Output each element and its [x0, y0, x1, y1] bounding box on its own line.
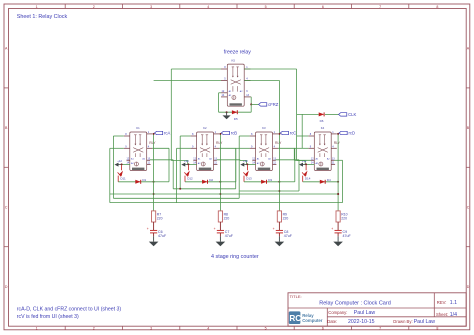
- svg-text:RLY: RLY: [275, 141, 282, 145]
- resistor R10: [336, 211, 348, 222]
- svg-text:47uF: 47uF: [343, 234, 352, 238]
- svg-text:6: 6: [322, 5, 324, 9]
- svg-text:Computer: Computer: [302, 318, 323, 323]
- relay K4: [308, 126, 337, 171]
- svg-text:1.1: 1.1: [450, 300, 457, 306]
- svg-text:D14: D14: [305, 176, 311, 180]
- flyback diode D14: [302, 165, 311, 182]
- svg-text:+12: +12: [184, 159, 189, 163]
- svg-text:5: 5: [265, 5, 267, 9]
- hierarchical label CLK: [339, 112, 357, 117]
- diode D4: [320, 178, 331, 184]
- capacitor C6: [147, 227, 167, 238]
- wire coil feed K2: [188, 163, 197, 165]
- hierarchical label rcA: [155, 131, 171, 136]
- wire K3 pin9 vertical: [236, 148, 250, 189]
- svg-text:D5: D5: [234, 117, 238, 121]
- relay K1: [124, 126, 153, 171]
- svg-text:rcA: rcA: [164, 131, 170, 136]
- svg-text:freeze relay: freeze relay: [224, 50, 252, 56]
- svg-text:220: 220: [224, 217, 230, 221]
- svg-text:K2: K2: [203, 126, 207, 130]
- wire diode row K3: [244, 181, 279, 183]
- svg-text:D4: D4: [327, 178, 331, 182]
- wire coil feed K1: [121, 163, 130, 165]
- junction column feed K1: [153, 193, 155, 195]
- svg-text:rcD: rcD: [349, 131, 356, 136]
- svg-text:TITLE:: TITLE:: [290, 294, 302, 299]
- svg-text:1/4: 1/4: [450, 312, 457, 318]
- svg-text:CLK: CLK: [348, 112, 356, 117]
- wire K3 pin13 down to K4 coil: [276, 160, 306, 191]
- svg-text:Drawn By:: Drawn By:: [393, 319, 412, 324]
- svg-text:+12: +12: [302, 159, 307, 163]
- wire stage column K1: [153, 134, 155, 211]
- diode D2: [202, 178, 213, 184]
- power +12V arrow K3: [240, 159, 248, 167]
- junction column top K3: [278, 133, 280, 135]
- wire coil feed K3: [247, 163, 256, 165]
- hierarchical label rcD: [339, 131, 355, 136]
- svg-text:RLY: RLY: [149, 141, 156, 145]
- svg-text:1: 1: [36, 5, 38, 9]
- svg-text:rcC: rcC: [290, 131, 297, 136]
- wire K5 pin5 left: [154, 80, 221, 82]
- wire bus b3: [113, 197, 239, 199]
- title block dividers: [288, 293, 466, 326]
- svg-text:2022-10-15: 2022-10-15: [348, 319, 375, 325]
- svg-text:rcV is fed from UI (sheet 3): rcV is fed from UI (sheet 3): [17, 314, 79, 320]
- junction column top K2: [219, 133, 221, 135]
- svg-text:8: 8: [436, 5, 438, 9]
- wire coil feed K4: [305, 163, 314, 165]
- svg-text:47uF: 47uF: [284, 234, 293, 238]
- svg-text:K5: K5: [232, 59, 236, 63]
- wire stage column K2: [219, 134, 221, 211]
- wire pin4 to diode row K2: [219, 148, 236, 182]
- svg-text:RLY: RLY: [216, 141, 223, 145]
- diode D6: [319, 112, 324, 122]
- junction column feed K2: [219, 193, 221, 195]
- flyback diode D13: [243, 165, 252, 182]
- junction b1 K2 pin8: [179, 188, 181, 190]
- ground below C7: [216, 236, 226, 246]
- ground below C9: [333, 236, 343, 246]
- svg-text:D12: D12: [187, 176, 193, 180]
- junction diode row K3: [278, 181, 280, 183]
- svg-text:Sheet:: Sheet:: [436, 312, 448, 317]
- svg-text:D11: D11: [120, 176, 126, 180]
- svg-text:47uF: 47uF: [225, 234, 234, 238]
- svg-text:Relay Computer : Clock Card: Relay Computer : Clock Card: [319, 301, 391, 307]
- wire bus b1: [173, 188, 236, 190]
- junction column top K1: [153, 133, 155, 135]
- junction diode row K4: [337, 181, 339, 183]
- svg-text:D1: D1: [142, 178, 146, 182]
- wire resistor to cap R7: [153, 222, 155, 230]
- wire bus b4: [110, 202, 343, 204]
- wire D6 to CLK label: [325, 113, 339, 115]
- svg-text:rcA-D, CLK and cFRZ connect to: rcA-D, CLK and cFRZ connect to UI (sheet…: [17, 306, 122, 312]
- wire diode row K4: [303, 181, 338, 183]
- wire K3 pin8 vertical: [239, 136, 249, 198]
- wire K1 pin8 vertical: [113, 136, 123, 198]
- wire stage column K3: [278, 134, 280, 211]
- wire K5 coil loop: [219, 93, 252, 112]
- junction coil node K2: [187, 163, 189, 165]
- wire diode row K2: [185, 181, 220, 183]
- flyback diode D12: [184, 165, 193, 182]
- wire K5 pin4 right: [244, 80, 279, 82]
- wire stage column K4: [337, 134, 339, 211]
- svg-text:4: 4: [207, 327, 209, 331]
- svg-text:+: +: [273, 227, 275, 231]
- power +12V arrow K4: [299, 159, 307, 167]
- svg-text:Paul Law: Paul Law: [414, 319, 436, 325]
- wire D6 branch to K4 pin9: [301, 114, 303, 148]
- svg-text:1: 1: [36, 327, 38, 331]
- wire resistor to cap R9: [278, 222, 280, 230]
- logo RC Relay Computer: [289, 311, 323, 324]
- junction cFRZ node: [250, 103, 252, 105]
- svg-text:Company:: Company:: [328, 310, 347, 315]
- diode D5: [232, 110, 238, 121]
- resistor R7: [152, 211, 163, 222]
- svg-text:D: D: [5, 285, 8, 289]
- svg-text:+: +: [331, 227, 333, 231]
- svg-text:C: C: [5, 205, 8, 209]
- hierarchical label cFRZ: [259, 102, 279, 107]
- diode D3: [261, 178, 272, 184]
- power +12V arrow K2: [181, 159, 189, 167]
- svg-text:+: +: [147, 227, 149, 231]
- svg-text:D6: D6: [320, 119, 324, 123]
- resistor R8: [218, 211, 229, 222]
- svg-text:6: 6: [322, 327, 324, 331]
- svg-text:D13: D13: [246, 176, 252, 180]
- junction coil node K3: [246, 163, 248, 165]
- svg-text:7: 7: [379, 327, 381, 331]
- junction coil node K1: [121, 163, 123, 165]
- svg-text:220: 220: [341, 217, 347, 221]
- wire resistor to cap R10: [337, 222, 339, 230]
- svg-text:+12: +12: [243, 159, 248, 163]
- svg-text:RLY: RLY: [334, 141, 341, 145]
- svg-text:rcB: rcB: [231, 131, 237, 136]
- wire K4 pin13 loop right: [335, 160, 343, 202]
- svg-text:5: 5: [265, 327, 267, 331]
- svg-text:D2: D2: [209, 178, 213, 182]
- junction column top K4: [337, 133, 339, 135]
- svg-text:cFRZ: cFRZ: [268, 102, 279, 107]
- wire K5 pin1 right: [244, 68, 296, 70]
- svg-text:7: 7: [379, 5, 381, 9]
- wire bus b2: [110, 193, 338, 195]
- diode D1: [135, 178, 146, 184]
- hierarchical label rcB: [221, 131, 237, 136]
- wire K5 pin8 left: [171, 68, 221, 70]
- resistor R9: [277, 211, 288, 222]
- wire K1 pin13 down: [150, 160, 173, 189]
- svg-text:3: 3: [150, 5, 152, 9]
- wire pin4 to diode row K1: [152, 148, 169, 182]
- capacitor C7: [214, 227, 234, 238]
- wire K5 left vertical to K2 coil: [171, 69, 187, 164]
- hierarchical label rcC: [280, 131, 296, 136]
- junction b2 col4 end: [337, 193, 339, 195]
- ground below C8: [275, 236, 285, 246]
- svg-text:+12: +12: [117, 159, 122, 163]
- wire K4 pin8 vertical: [297, 135, 309, 137]
- svg-text:C: C: [467, 205, 470, 209]
- title block texts: [290, 294, 458, 325]
- wire right vertical to D6: [297, 69, 319, 161]
- svg-text:47uF: 47uF: [158, 234, 167, 238]
- svg-text:2: 2: [93, 5, 95, 9]
- relay K5: [221, 59, 251, 107]
- wire to cFRZ label: [251, 103, 258, 105]
- junction coil node K4: [305, 163, 307, 165]
- wire bus b5: [240, 190, 299, 192]
- svg-text:+: +: [214, 227, 216, 231]
- junction diode row K1: [153, 181, 155, 183]
- svg-text:REV:: REV:: [437, 300, 447, 305]
- relay K2: [191, 126, 220, 171]
- wire resistor to cap R8: [219, 222, 221, 230]
- junction column feed K4: [337, 193, 339, 195]
- svg-text:8: 8: [436, 327, 438, 331]
- svg-text:K4: K4: [321, 126, 325, 130]
- junction column feed K3: [278, 190, 280, 192]
- power +12V arrow K1: [115, 159, 123, 167]
- capacitor C8: [273, 227, 293, 238]
- svg-text:220: 220: [283, 217, 289, 221]
- svg-text:3: 3: [150, 327, 152, 331]
- wire vertical to rcC node: [279, 81, 281, 134]
- junction diode row K2: [219, 181, 221, 183]
- svg-text:Sheet 1: Relay Clock: Sheet 1: Relay Clock: [17, 14, 68, 20]
- ground below C6: [149, 236, 159, 246]
- junction K5 ground node: [226, 111, 228, 113]
- svg-text:D: D: [467, 285, 470, 289]
- wire pin4 to diode row K3: [278, 148, 295, 182]
- wire K2 pin13 down to K3 coil: [217, 160, 247, 165]
- svg-text:4 stage ring counter: 4 stage ring counter: [211, 254, 259, 260]
- svg-text:Relay: Relay: [302, 313, 314, 318]
- svg-text:220: 220: [157, 217, 163, 221]
- relay K3: [250, 126, 279, 171]
- wire K4 pin9 vertical: [294, 148, 311, 160]
- svg-text:Paul Law: Paul Law: [354, 310, 376, 316]
- flyback diode D11: [118, 165, 126, 182]
- wire K1 pin9 vertical: [110, 148, 124, 202]
- svg-text:RC: RC: [289, 314, 301, 323]
- svg-text:Date:: Date:: [327, 319, 337, 324]
- svg-text:2: 2: [93, 327, 95, 331]
- svg-text:4: 4: [207, 5, 209, 9]
- wire K2 pin8 vertical: [180, 136, 190, 189]
- svg-text:K3: K3: [262, 126, 266, 130]
- wire K2 pin9 vertical: [177, 148, 191, 202]
- wire diode row K1: [118, 181, 153, 183]
- ground below K5: [223, 112, 231, 119]
- svg-text:K1: K1: [136, 126, 140, 130]
- svg-text:D3: D3: [268, 178, 272, 182]
- capacitor C9: [331, 227, 351, 238]
- title block frame: [288, 293, 466, 326]
